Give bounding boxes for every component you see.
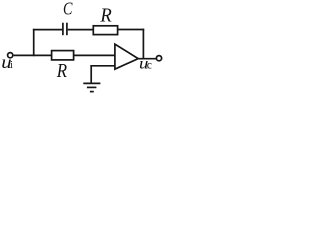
- svg-text:i: i: [10, 60, 13, 71]
- wire: top branch to capacitor: [33, 29, 62, 31]
- wire: capacitor to feedback resistor R2: [68, 29, 94, 31]
- svg-text:R: R: [99, 5, 112, 27]
- svg-text:c: c: [147, 59, 152, 71]
- wire: ground to op-amp lower input: [90, 65, 115, 67]
- wire: input to resistor R1: [14, 54, 52, 56]
- background: [0, 0, 165, 98]
- resistor R1 box (bottom): [52, 51, 74, 60]
- ground bar 1: [83, 82, 100, 84]
- svg-text:C: C: [63, 0, 73, 19]
- capacitor C left plate: [62, 23, 64, 36]
- wire: op-amp output to terminal: [138, 58, 157, 60]
- wire: junction vertical input node to top branch: [33, 29, 35, 56]
- ground bar 2: [87, 86, 97, 88]
- svg-text:R: R: [56, 60, 68, 82]
- capacitor C right plate: [66, 23, 68, 36]
- ground stem: [90, 65, 92, 83]
- wire: feedback vertical down to output: [142, 29, 144, 59]
- op-amp U1 triangle: [115, 44, 138, 69]
- wire: resistor R2 to corner: [118, 29, 145, 31]
- wire: resistor R1 to op-amp input: [74, 54, 115, 56]
- ground bar 3: [90, 91, 94, 93]
- output terminal circle: [156, 56, 161, 61]
- input terminal circle: [8, 53, 13, 58]
- resistor R2 box (top): [93, 26, 117, 35]
